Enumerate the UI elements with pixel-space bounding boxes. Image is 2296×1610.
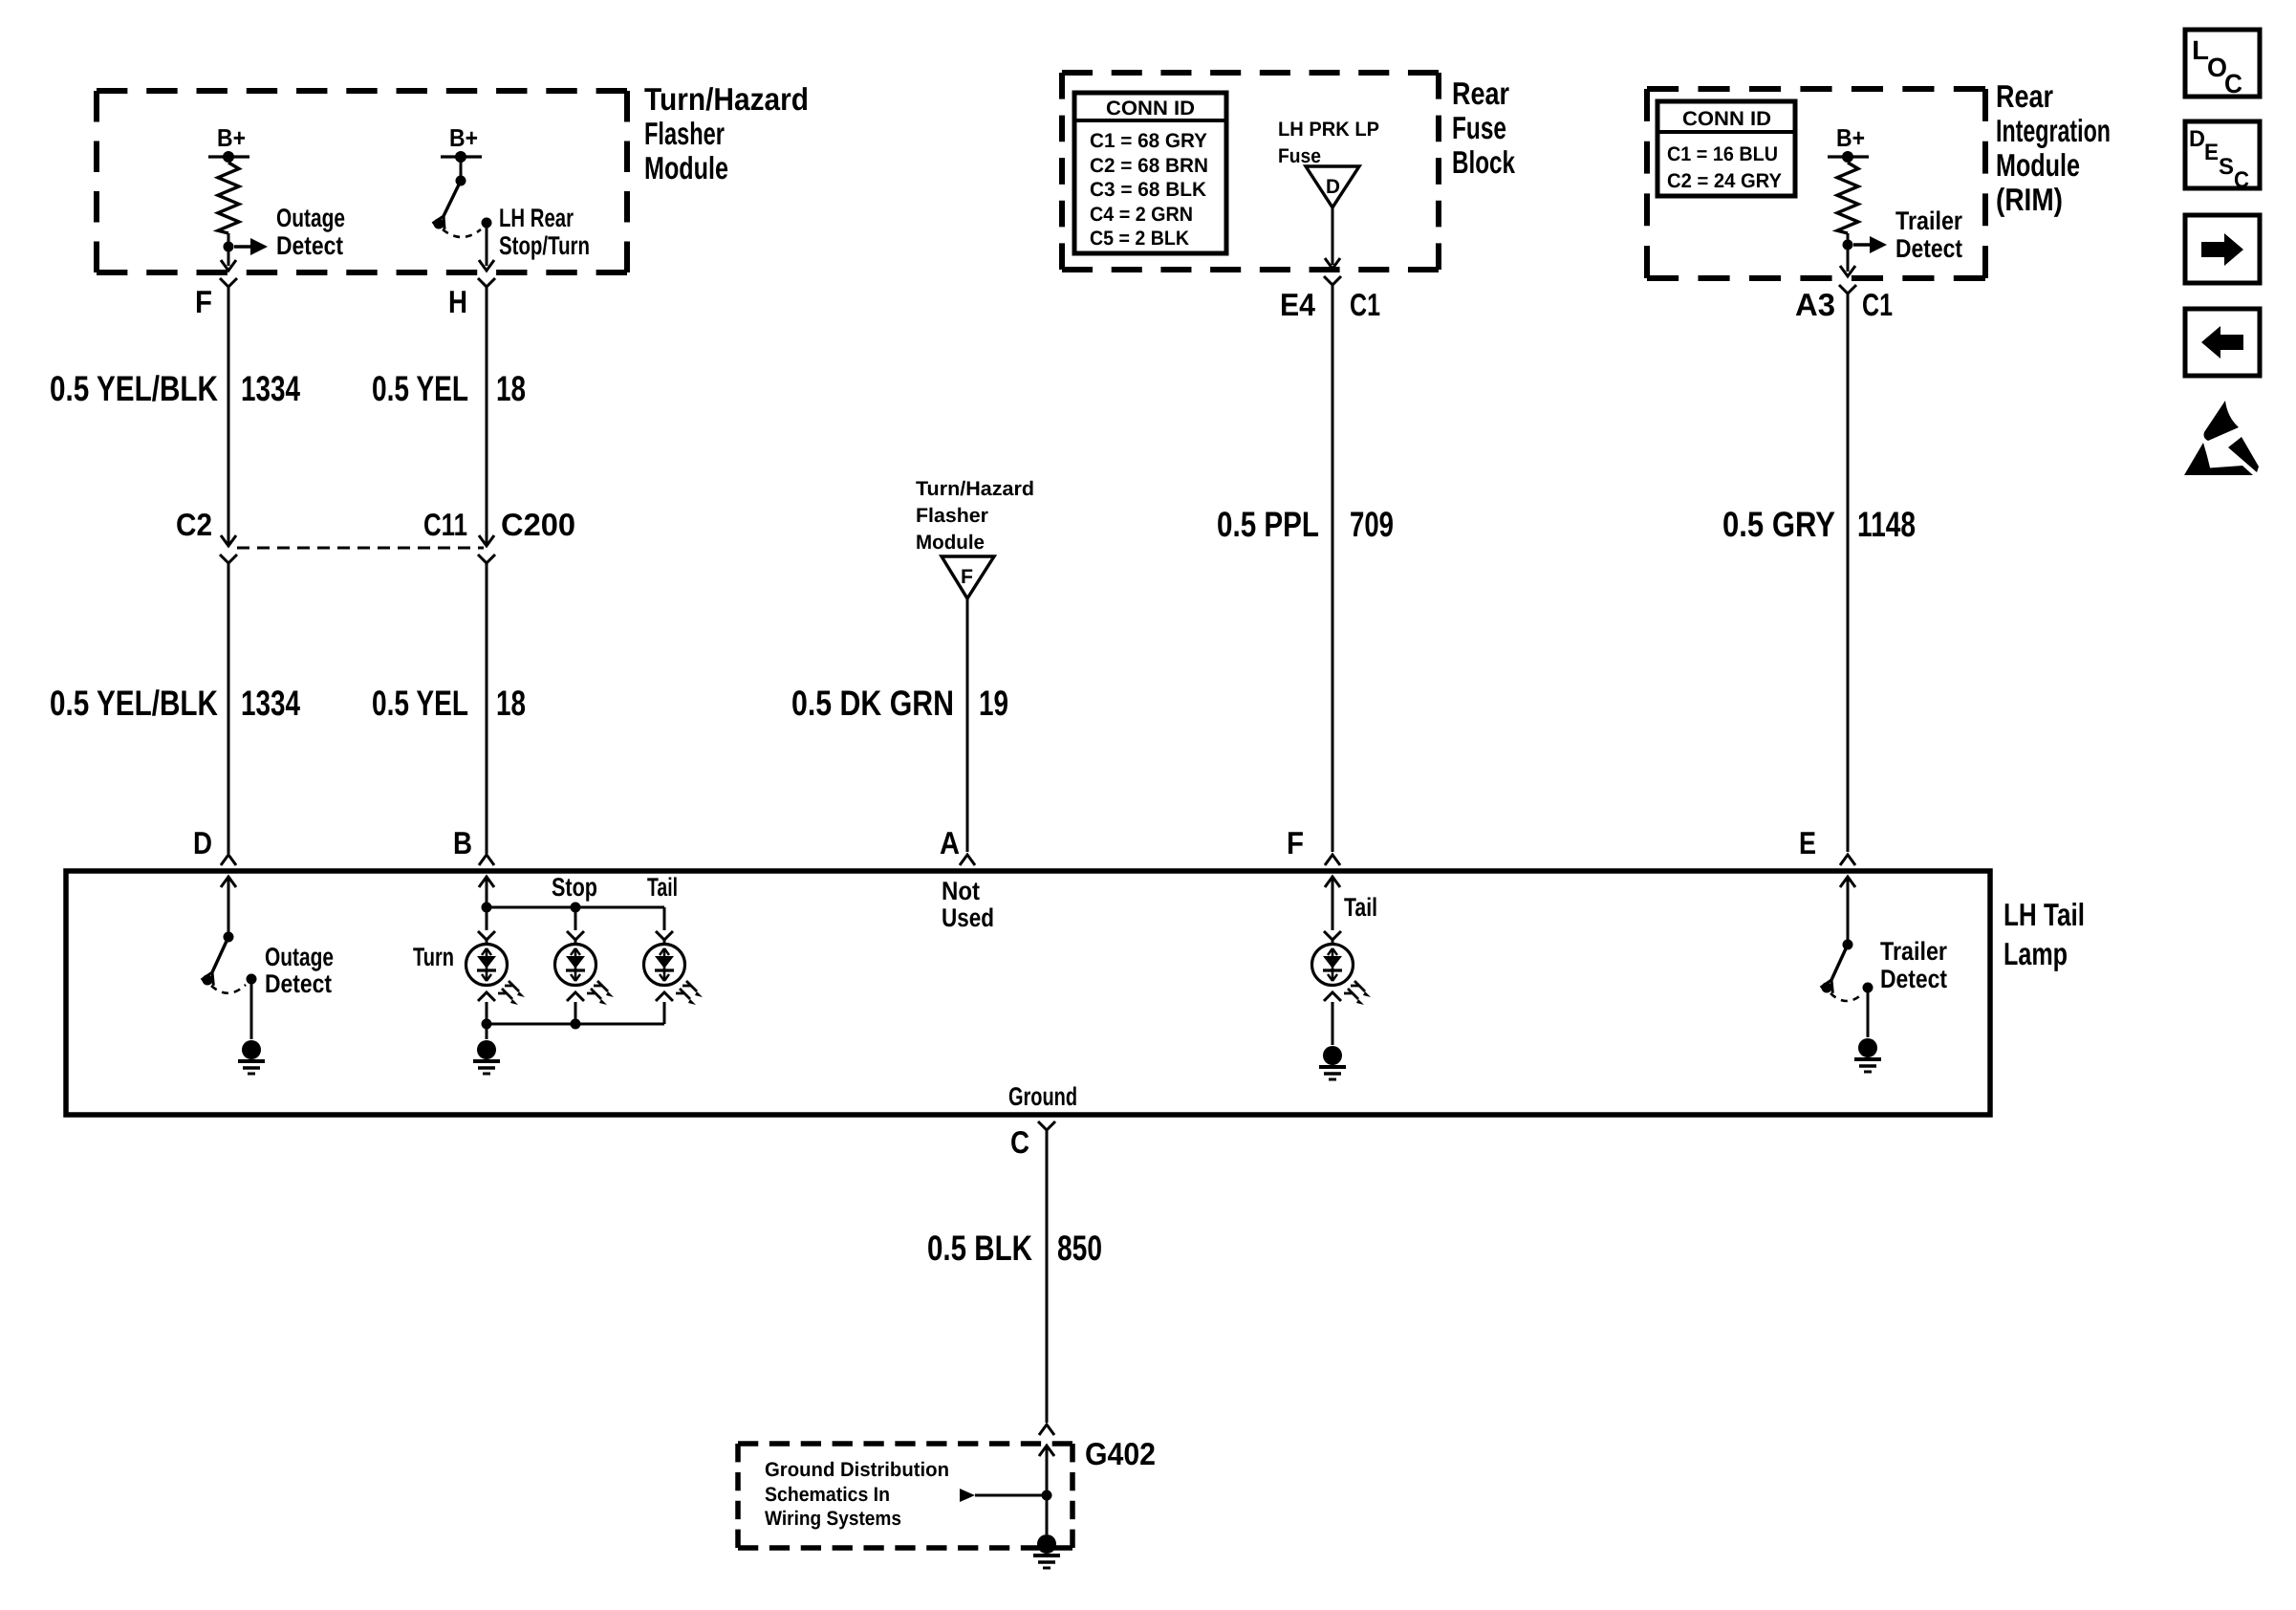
wire: stop bulb to return bus <box>574 1002 577 1024</box>
arrowhead up into lamp at pin D <box>221 877 236 887</box>
ground symbol (outage detect) <box>238 1040 265 1074</box>
signal arrow: Trailer Detect <box>1853 236 1887 253</box>
connector inverted Y below turn bulb <box>478 992 495 1001</box>
svg-text:1148: 1148 <box>1857 505 1916 544</box>
svg-text:B+: B+ <box>1836 123 1865 152</box>
svg-text:709: 709 <box>1350 505 1394 544</box>
connector inverted Y below tail bulb <box>656 992 673 1001</box>
trailer detect switch arm <box>1821 945 1848 993</box>
connector Y at pin H <box>478 278 495 287</box>
svg-text:LH Tail: LH Tail <box>2004 897 2085 932</box>
connector chevron above G402 <box>1039 1425 1054 1435</box>
wire: return bus to ground <box>486 1024 488 1039</box>
svg-text:C1: C1 <box>1350 287 1380 322</box>
wire 709 (0.5 PPL) <box>1332 285 1334 852</box>
arrowhead into fuse block boundary <box>1325 258 1340 269</box>
svg-text:CONN ID: CONN ID <box>1106 98 1195 120</box>
svg-text:LH PRK LP: LH PRK LP <box>1278 119 1379 141</box>
svg-text:Turn: Turn <box>413 943 454 971</box>
stub to turn bulb <box>486 940 488 946</box>
svg-text:C: C <box>2234 167 2249 193</box>
B+ supply symbol (trailer detect) <box>1828 123 1869 163</box>
svg-text:18: 18 <box>496 369 526 408</box>
wire: B+ to switch <box>460 157 463 180</box>
wire: switch to pin H <box>486 223 488 266</box>
wire 18 lower segment <box>486 563 488 854</box>
CONN ID table (RIM) <box>1657 101 1795 196</box>
inline connector dashed line C200 <box>237 547 484 550</box>
outage switch travel arc (dashed) <box>211 985 246 993</box>
wire: bus to turn bulb <box>486 907 488 930</box>
connector Y at pin E4 <box>1324 276 1341 285</box>
connector chevron above pin B <box>479 855 494 865</box>
svg-text:Flasher: Flasher <box>644 116 725 151</box>
arrowhead up into lamp at pin F <box>1325 877 1340 887</box>
svg-text:0.5 PPL: 0.5 PPL <box>1217 505 1319 544</box>
svg-text:Not: Not <box>942 877 980 905</box>
svg-text:Used: Used <box>942 903 994 932</box>
svg-text:Detect: Detect <box>1880 965 1947 993</box>
svg-text:Module: Module <box>916 532 985 554</box>
return bus junction at stop bulb <box>571 1019 581 1030</box>
switch contact dot right <box>482 218 492 228</box>
svg-text:Outage: Outage <box>276 204 345 232</box>
svg-text:850: 850 <box>1057 1229 1102 1268</box>
svg-text:1334: 1334 <box>241 684 300 723</box>
svg-text:Module: Module <box>644 150 728 185</box>
stub to tail bulb (pin F) <box>1332 940 1334 946</box>
light rays of tail bulb <box>676 981 703 1005</box>
svg-text:S: S <box>2219 154 2234 180</box>
connector Y above turn bulb <box>478 931 495 940</box>
wire: pin E to trailer switch <box>1847 877 1850 944</box>
wire: G402 ground stem <box>1046 1446 1049 1534</box>
signal arrow: Outage Detect <box>234 238 268 255</box>
svg-text:C3 = 68 BLK: C3 = 68 BLK <box>1090 179 1206 201</box>
svg-text:B: B <box>453 825 472 860</box>
arrowhead up into lamp at pin E <box>1840 877 1855 887</box>
bulb: stop <box>555 945 596 986</box>
svg-text:C2: C2 <box>176 507 212 542</box>
node: trailer detect junction <box>1843 240 1853 250</box>
resistor: outage detect sense <box>218 163 239 233</box>
light rays of tail bulb (pin F) <box>1344 981 1371 1005</box>
switch travel arc (dashed) <box>443 229 481 237</box>
wire 850 (0.5 BLK) <box>1046 1130 1049 1423</box>
svg-text:Ground: Ground <box>1008 1082 1077 1111</box>
icon: ESD warning triangle <box>2184 401 2259 475</box>
bulb: tail <box>644 945 685 986</box>
wire: pin B to bulb bus <box>486 877 488 907</box>
svg-text:0.5 DK GRN: 0.5 DK GRN <box>791 684 954 723</box>
junction dot G402 <box>1042 1490 1052 1501</box>
wire: fuse to pin E4 <box>1332 207 1334 265</box>
trailer switch contact right <box>1863 983 1874 993</box>
outage switch contact right <box>247 974 257 985</box>
svg-text:Fuse: Fuse <box>1278 145 1321 167</box>
svg-text:Turn/Hazard: Turn/Hazard <box>644 81 809 117</box>
svg-text:D: D <box>193 825 212 860</box>
icon box: arrow right <box>2185 215 2260 283</box>
light rays of turn bulb <box>498 981 525 1005</box>
svg-text:0.5 YEL/BLK: 0.5 YEL/BLK <box>50 684 218 723</box>
svg-text:Integration: Integration <box>1996 113 2111 148</box>
arrowhead up into G402 box <box>1039 1446 1054 1456</box>
reference box: Ground Distribution G402 <box>738 1444 1072 1548</box>
connector chevron above pin E <box>1840 855 1855 865</box>
reference pointer arrow in G402 <box>960 1489 1047 1502</box>
outage detect switch arm <box>202 937 228 986</box>
svg-text:Detect: Detect <box>1895 234 1962 263</box>
stub to tail bulb <box>663 940 666 946</box>
connector Y above stop bulb <box>567 931 584 940</box>
connector inverted Y below tail bulb (pin F) <box>1324 992 1341 1001</box>
wire: outage switch to ground <box>250 979 253 1039</box>
fuse symbol triangle D <box>1306 166 1359 207</box>
ground symbol G402 <box>1033 1534 1060 1568</box>
connector Y below C11 <box>478 555 495 563</box>
arrowhead up into lamp at pin B <box>479 877 494 887</box>
component box: LH Tail Lamp <box>66 871 1990 1115</box>
bulb: turn <box>466 945 508 986</box>
outage switch pivot dot <box>224 932 234 943</box>
wire: pin F to tail bulb <box>1332 877 1334 930</box>
svg-text:Module: Module <box>1996 147 2080 183</box>
svg-text:C200: C200 <box>501 507 575 542</box>
connector Y at pin F <box>220 278 237 287</box>
CONN ID table (Rear Fuse Block) <box>1074 93 1226 253</box>
svg-text:B+: B+ <box>449 123 478 152</box>
svg-text:C1: C1 <box>1862 287 1893 322</box>
wire 1148 (0.5 GRY) <box>1847 294 1850 852</box>
wire: tail bulb to ground <box>1332 1002 1334 1045</box>
svg-text:0.5 BLK: 0.5 BLK <box>927 1229 1032 1268</box>
icon box: LOC <box>2185 30 2260 98</box>
bus junction at turn bulb <box>482 903 492 913</box>
icon box: arrow left <box>2185 309 2260 376</box>
svg-text:1334: 1334 <box>241 369 300 408</box>
svg-text:Stop/Turn: Stop/Turn <box>499 231 590 260</box>
svg-text:(RIM): (RIM) <box>1996 182 2063 217</box>
svg-text:C1 = 16 BLU: C1 = 16 BLU <box>1667 143 1778 165</box>
arrowhead at connector C200 pin C2 <box>221 535 236 546</box>
svg-text:C5 = 2 BLK: C5 = 2 BLK <box>1090 228 1189 250</box>
module box: Turn/Hazard Flasher Module <box>97 91 627 272</box>
svg-text:D: D <box>2189 126 2205 152</box>
svg-text:F: F <box>961 566 973 588</box>
svg-text:Trailer: Trailer <box>1880 937 1947 966</box>
svg-text:19: 19 <box>979 684 1008 723</box>
svg-text:0.5 YEL: 0.5 YEL <box>372 684 468 723</box>
wire 1334 lower segment <box>227 563 230 854</box>
ground symbol (trailer detect) <box>1854 1038 1881 1072</box>
svg-text:F: F <box>1287 825 1304 860</box>
switch arm: LH rear stop/turn driver <box>432 181 461 229</box>
connector Y at pin A3 <box>1839 285 1856 294</box>
trailer switch pivot dot <box>1843 940 1853 950</box>
svg-text:Detect: Detect <box>276 231 343 260</box>
svg-text:Flasher: Flasher <box>916 505 988 527</box>
resistor: trailer detect sense <box>1837 163 1858 233</box>
svg-text:D: D <box>1326 176 1340 198</box>
flasher module pointer triangle F <box>942 556 994 598</box>
svg-text:Block: Block <box>1452 144 1515 180</box>
svg-text:C: C <box>2224 69 2242 98</box>
svg-text:CONN ID: CONN ID <box>1682 108 1771 130</box>
switch contact dot left <box>434 219 444 229</box>
icon box: DESC <box>2185 121 2260 193</box>
arrowhead into RIM boundary at pin A3 <box>1840 266 1855 276</box>
svg-text:Tail: Tail <box>647 873 678 902</box>
trailer switch contact left <box>1822 983 1832 993</box>
svg-text:B+: B+ <box>217 123 246 152</box>
wire: resistor to pin F <box>227 233 230 266</box>
bulb feed bus <box>487 906 664 909</box>
svg-text:C1 = 68 GRY: C1 = 68 GRY <box>1090 130 1207 152</box>
svg-text:C2 = 68 BRN: C2 = 68 BRN <box>1090 155 1208 177</box>
wire: bus to stop bulb <box>574 907 577 930</box>
svg-text:Rear: Rear <box>1452 76 1509 111</box>
wire: pin D to outage switch <box>227 877 230 936</box>
wire 1334 upper segment <box>227 287 230 544</box>
node: outage detect junction <box>224 242 234 252</box>
wire 19 (0.5 DK GRN) <box>966 598 969 852</box>
svg-text:Schematics In: Schematics In <box>765 1484 890 1506</box>
svg-text:Trailer: Trailer <box>1895 207 1962 235</box>
svg-text:C4 = 2 GRN: C4 = 2 GRN <box>1090 204 1193 226</box>
wire: tail bulb to return bus <box>663 1002 666 1024</box>
connector Y below C2 <box>220 555 237 563</box>
connector chevron above pin D <box>221 855 236 865</box>
wire: turn bulb to return bus <box>486 1002 488 1024</box>
svg-text:0.5 YEL/BLK: 0.5 YEL/BLK <box>50 369 218 408</box>
ground symbol (bulb return) <box>473 1040 500 1074</box>
svg-text:G402: G402 <box>1085 1436 1156 1471</box>
arrowhead into module boundary at pin H <box>479 260 494 271</box>
svg-text:Ground Distribution: Ground Distribution <box>765 1459 949 1481</box>
svg-text:0.5 GRY: 0.5 GRY <box>1722 505 1835 544</box>
svg-text:E: E <box>1799 825 1816 860</box>
connector inverted Y below stop bulb <box>567 992 584 1001</box>
svg-text:Detect: Detect <box>265 969 332 998</box>
svg-text:Lamp: Lamp <box>2004 936 2068 971</box>
bulb: tail (pin F) <box>1312 945 1354 986</box>
svg-text:F: F <box>195 284 212 319</box>
trailer switch travel arc (dashed) <box>1830 993 1863 1001</box>
svg-text:0.5 YEL: 0.5 YEL <box>372 369 468 408</box>
outage switch contact left <box>203 975 213 986</box>
switch pivot dot <box>456 176 466 186</box>
arrowhead into module boundary at pin F <box>221 260 236 271</box>
svg-text:LH Rear: LH Rear <box>499 204 574 232</box>
connector Y below pin C <box>1038 1121 1055 1130</box>
svg-text:E4: E4 <box>1280 287 1316 322</box>
wire: resistor to pin A3 <box>1847 233 1850 272</box>
bulb return bus <box>487 1023 664 1026</box>
svg-text:Rear: Rear <box>1996 78 2053 114</box>
svg-text:E: E <box>2204 140 2219 165</box>
svg-text:Tail: Tail <box>1344 893 1377 922</box>
module box: Rear Fuse Block <box>1062 73 1439 270</box>
light rays of stop bulb <box>587 981 614 1005</box>
bus junction at stop bulb <box>571 903 581 913</box>
B+ supply symbol (stop/turn driver) <box>441 123 482 163</box>
svg-text:C11: C11 <box>423 507 467 542</box>
connector Y above tail bulb <box>656 931 673 940</box>
ground symbol (tail bulb) <box>1319 1046 1346 1079</box>
svg-text:Fuse: Fuse <box>1452 110 1506 145</box>
svg-text:18: 18 <box>496 684 526 723</box>
svg-text:Outage: Outage <box>265 943 334 971</box>
return bus junction at turn bulb <box>482 1019 492 1030</box>
svg-text:Stop: Stop <box>552 873 597 902</box>
module box: Rear Integration Module (RIM) <box>1647 89 1985 278</box>
svg-text:A3: A3 <box>1795 287 1835 322</box>
svg-text:Wiring Systems: Wiring Systems <box>765 1508 901 1530</box>
connector Y above tail bulb (pin F) <box>1324 931 1341 940</box>
wire 18 upper segment <box>486 287 488 544</box>
connector chevron above pin A <box>960 855 975 865</box>
wire: bus corner down to tail bulb <box>663 907 666 930</box>
svg-text:Turn/Hazard: Turn/Hazard <box>916 478 1034 500</box>
wire: trailer switch to ground <box>1867 988 1870 1037</box>
svg-text:C2 = 24 GRY: C2 = 24 GRY <box>1667 170 1782 192</box>
svg-text:A: A <box>940 825 960 860</box>
svg-text:C: C <box>1010 1124 1029 1160</box>
B+ supply symbol (outage detect branch) <box>208 123 249 163</box>
stub to stop bulb <box>574 940 577 946</box>
connector chevron above pin F <box>1325 855 1340 865</box>
arrowhead at connector C200 pin C11 <box>479 535 494 546</box>
svg-text:H: H <box>448 284 467 319</box>
